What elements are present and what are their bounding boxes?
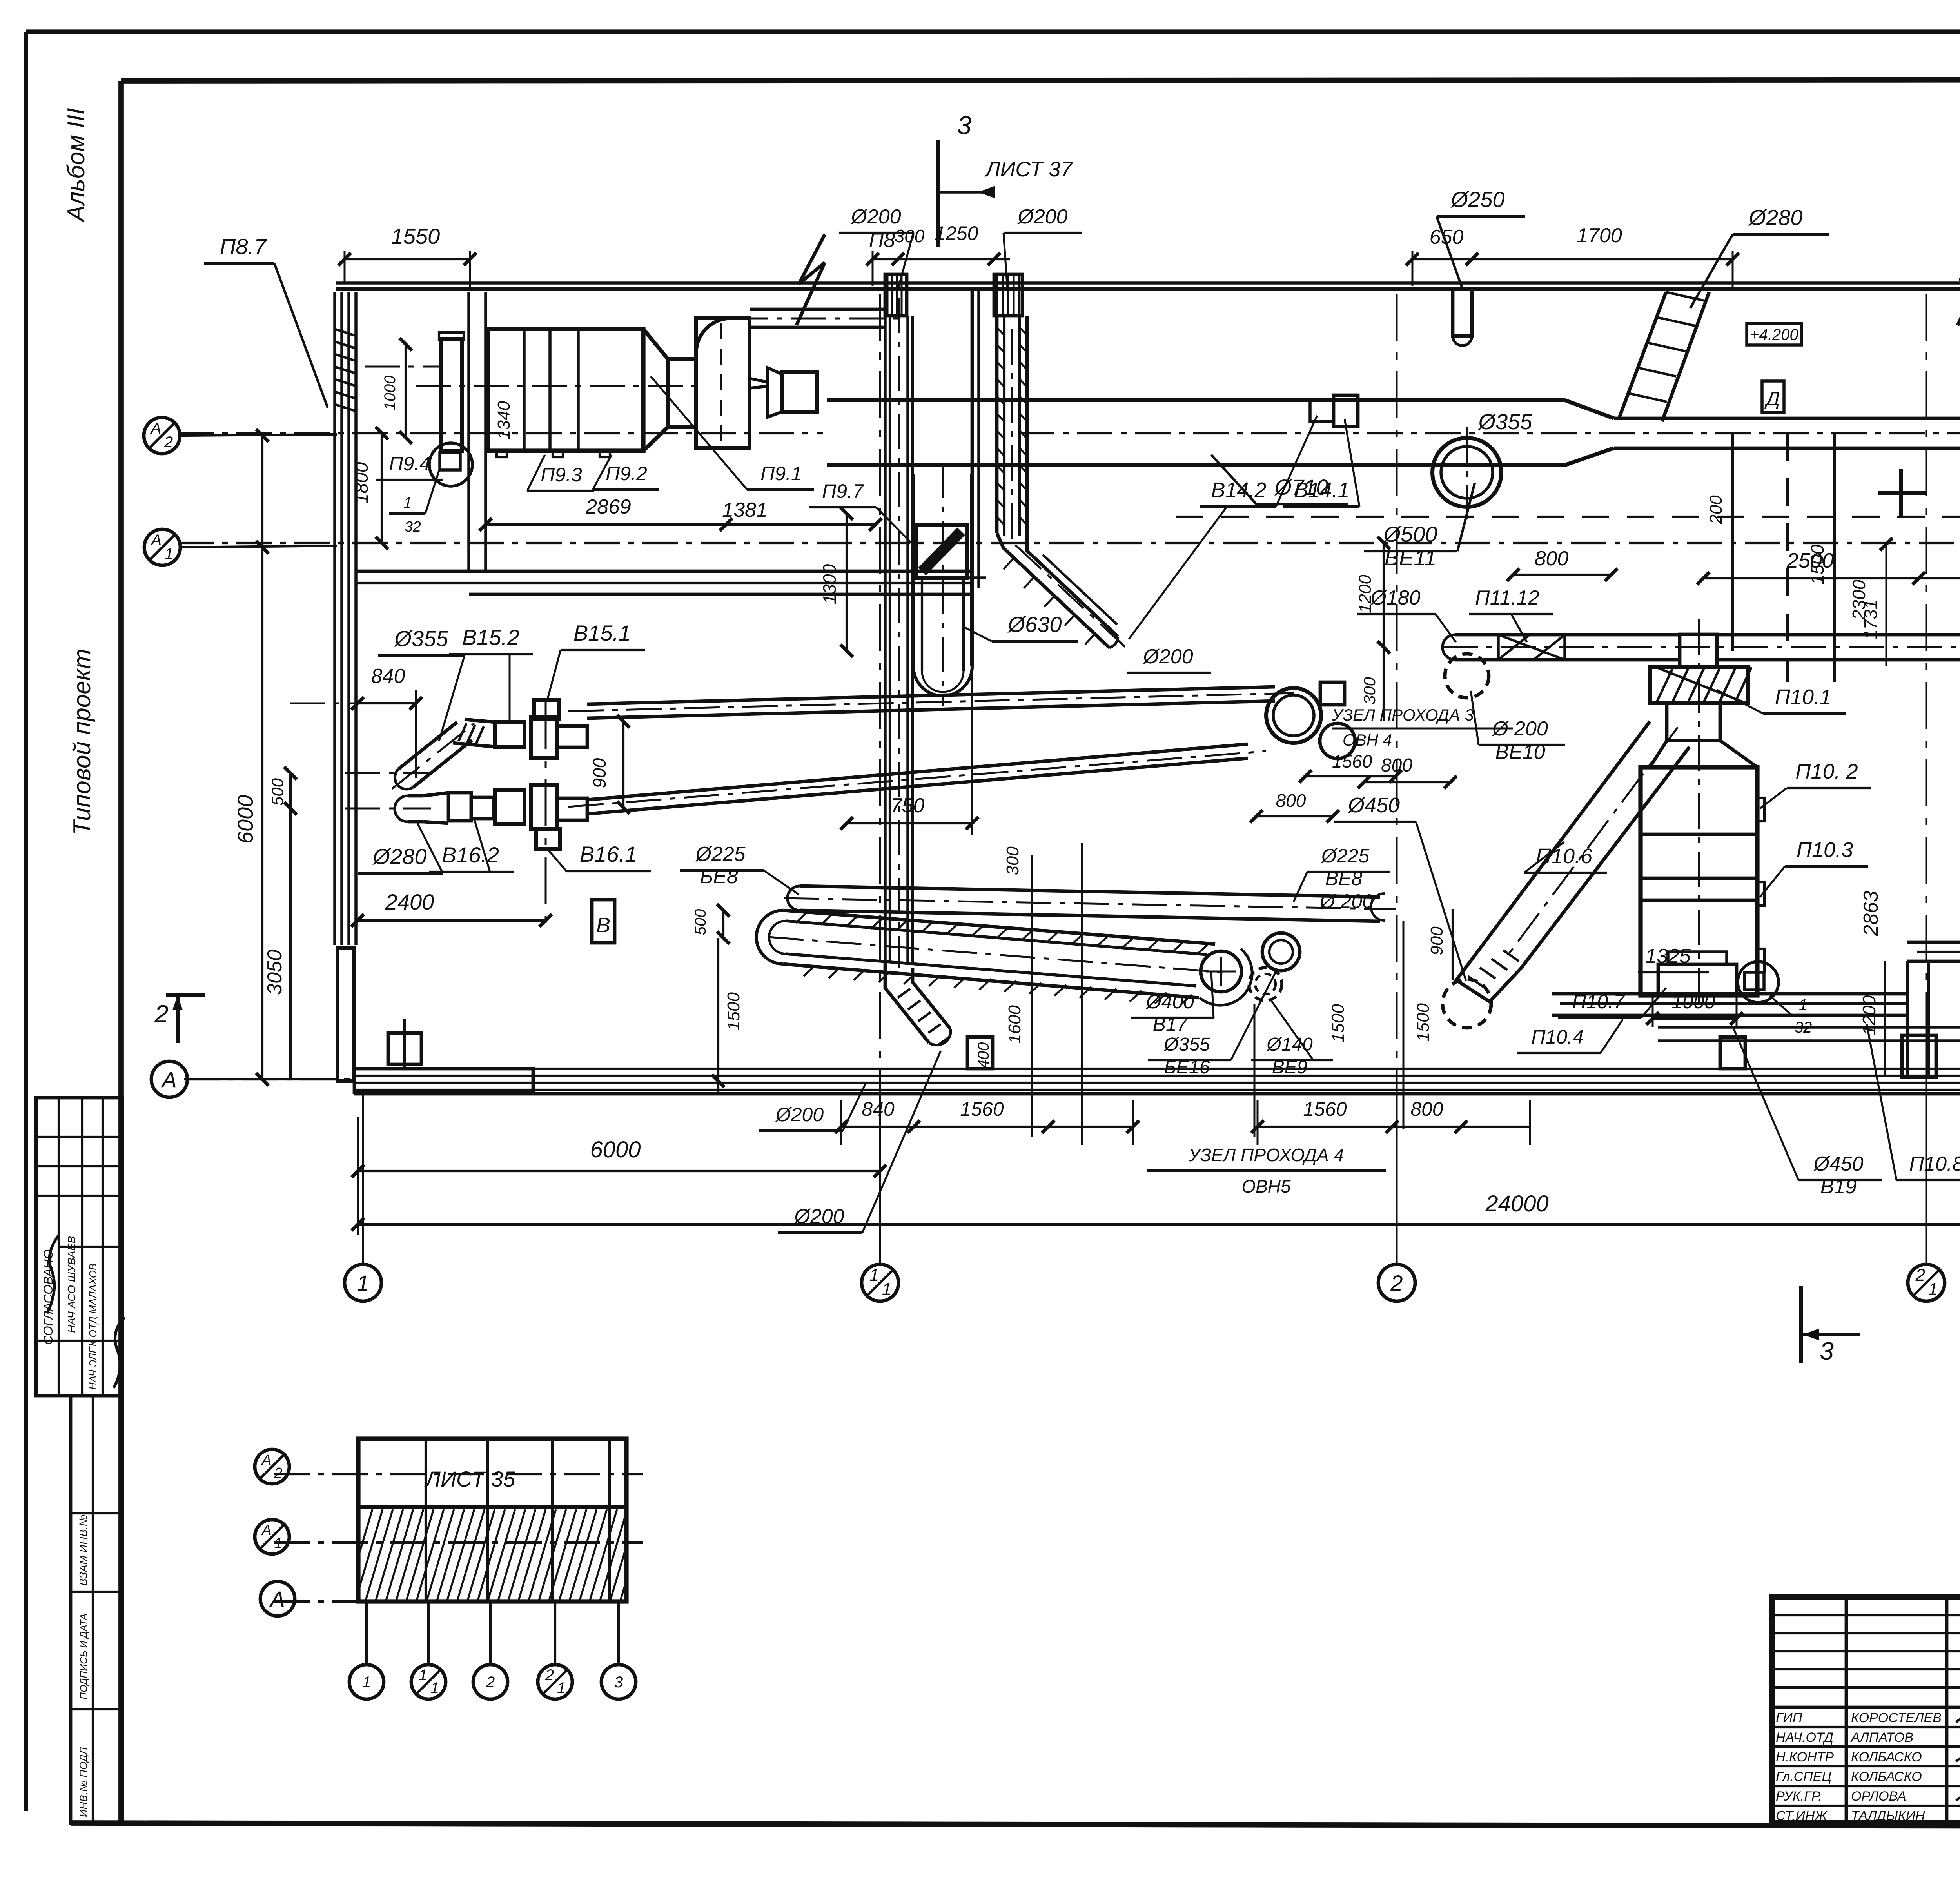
svg-text:Ø200: Ø200 — [1142, 645, 1193, 668]
svg-text:2400: 2400 — [385, 890, 434, 914]
svg-text:1600: 1600 — [1005, 1005, 1024, 1044]
svg-text:ВЕ11: ВЕ11 — [1385, 545, 1437, 570]
svg-text:КОРОСТЕЛЕВ: КОРОСТЕЛЕВ — [1851, 1710, 1942, 1725]
svg-text:1: 1 — [403, 495, 412, 511]
svg-text:650: 650 — [1430, 226, 1464, 249]
svg-text:1381: 1381 — [722, 499, 768, 521]
svg-text:П8.7: П8.7 — [220, 234, 267, 259]
svg-text:Ø450: Ø450 — [1347, 793, 1400, 817]
svg-text:А: А — [261, 1522, 271, 1539]
svg-text:1: 1 — [1928, 1280, 1938, 1299]
svg-text:ОРЛОВА: ОРЛОВА — [1851, 1789, 1906, 1804]
svg-text:1560: 1560 — [960, 1098, 1004, 1120]
svg-text:400: 400 — [975, 1042, 992, 1069]
svg-text:БЕ8: БЕ8 — [700, 865, 738, 888]
svg-text:300: 300 — [1360, 677, 1379, 704]
svg-text:Ø200: Ø200 — [775, 1104, 824, 1126]
svg-text:1731: 1731 — [1860, 599, 1881, 639]
svg-text:24000: 24000 — [1485, 1191, 1548, 1216]
svg-text:Ø355: Ø355 — [1163, 1034, 1210, 1055]
svg-text:840: 840 — [371, 665, 405, 688]
svg-text:Ø355: Ø355 — [1478, 409, 1533, 434]
svg-text:2: 2 — [1915, 1266, 1925, 1285]
svg-text:2: 2 — [274, 1465, 282, 1482]
svg-text:1000: 1000 — [381, 376, 399, 410]
svg-text:Ø180: Ø180 — [1370, 586, 1420, 609]
svg-text:АЛПАТОВ: АЛПАТОВ — [1850, 1730, 1913, 1745]
svg-text:Гл.СПЕЦ: Гл.СПЕЦ — [1776, 1769, 1831, 1784]
svg-text:2869: 2869 — [585, 496, 631, 518]
svg-text:Ø200: Ø200 — [1017, 205, 1067, 228]
svg-text:1: 1 — [274, 1535, 282, 1552]
svg-text:1340: 1340 — [494, 401, 514, 439]
svg-text:3: 3 — [1820, 1337, 1834, 1365]
svg-text:В16.2: В16.2 — [442, 842, 499, 867]
svg-text:П10.1: П10.1 — [1775, 685, 1831, 709]
svg-text:32: 32 — [405, 519, 421, 535]
svg-text:ОВН 4: ОВН 4 — [1343, 731, 1392, 749]
svg-text:П11.12: П11.12 — [1475, 586, 1539, 609]
svg-text:А: А — [150, 420, 162, 437]
svg-text:КОЛБАСКО: КОЛБАСКО — [1851, 1769, 1922, 1784]
svg-text:2: 2 — [545, 1667, 554, 1684]
svg-text:1: 1 — [362, 1674, 371, 1691]
svg-text:А: А — [151, 532, 162, 549]
svg-text:800: 800 — [1381, 755, 1412, 776]
svg-text:2: 2 — [486, 1674, 495, 1691]
svg-text:УЗЕЛ ПРОХОДА 3: УЗЕЛ ПРОХОДА 3 — [1332, 706, 1474, 724]
svg-text:НАЧ АСО ШУВАЕВ: НАЧ АСО ШУВАЕВ — [65, 1236, 78, 1333]
svg-text:В14.1: В14.1 — [1294, 478, 1349, 502]
svg-text:3: 3 — [957, 111, 972, 140]
svg-text:Ø280: Ø280 — [372, 844, 427, 869]
svg-text:Типовой проект: Типовой проект — [69, 649, 96, 835]
svg-text:800: 800 — [1276, 790, 1306, 811]
svg-text:1550: 1550 — [391, 224, 440, 249]
svg-text:Ø140: Ø140 — [1266, 1034, 1313, 1055]
svg-text:500: 500 — [268, 778, 287, 806]
svg-text:УЗЕЛ ПРОХОДА 4: УЗЕЛ ПРОХОДА 4 — [1188, 1145, 1344, 1165]
svg-text:1250: 1250 — [935, 222, 978, 244]
svg-text:200: 200 — [1706, 495, 1726, 525]
svg-text:+4.200: +4.200 — [1750, 326, 1798, 343]
svg-text:ОВН5: ОВН5 — [1241, 1176, 1291, 1197]
svg-text:Ø450: Ø450 — [1813, 1153, 1863, 1175]
svg-text:П9.2: П9.2 — [606, 463, 647, 485]
svg-text:Ø225: Ø225 — [1321, 845, 1370, 867]
svg-text:Альбом III: Альбом III — [63, 108, 90, 223]
svg-text:В14.2: В14.2 — [1211, 478, 1266, 502]
svg-text:300: 300 — [1003, 846, 1022, 875]
svg-text:1500: 1500 — [1328, 1004, 1348, 1042]
svg-text:Ø200: Ø200 — [793, 1205, 844, 1228]
svg-text:Ø250: Ø250 — [1450, 187, 1505, 212]
svg-text:В: В — [596, 913, 610, 937]
svg-text:ТАЛДЫКИН: ТАЛДЫКИН — [1851, 1808, 1925, 1823]
svg-text:ЛИСТ 37: ЛИСТ 37 — [985, 158, 1073, 181]
svg-text:1: 1 — [430, 1679, 439, 1697]
svg-text:1: 1 — [165, 545, 173, 563]
svg-text:Ø 200: Ø 200 — [1319, 890, 1373, 912]
svg-text:ИНВ.№ ПОДЛ: ИНВ.№ ПОДЛ — [78, 1747, 89, 1817]
svg-text:1500: 1500 — [1414, 1003, 1433, 1042]
svg-text:1700: 1700 — [1577, 224, 1622, 247]
svg-text:2500: 2500 — [1786, 549, 1834, 572]
svg-text:НАЧ.ОТД: НАЧ.ОТД — [1776, 1730, 1833, 1745]
svg-text:1: 1 — [869, 1266, 879, 1285]
svg-text:Ø355: Ø355 — [394, 626, 449, 651]
svg-text:1300: 1300 — [819, 564, 840, 604]
svg-text:П9.1: П9.1 — [760, 463, 802, 485]
svg-text:840: 840 — [862, 1098, 895, 1120]
svg-text:1560: 1560 — [1332, 751, 1372, 772]
svg-text:1: 1 — [882, 1280, 891, 1299]
svg-text:1: 1 — [557, 1679, 566, 1697]
svg-text:800: 800 — [1535, 547, 1569, 570]
svg-text:П10.8: П10.8 — [1909, 1153, 1960, 1175]
svg-text:Ø 200: Ø 200 — [1492, 717, 1548, 740]
svg-text:2: 2 — [164, 434, 173, 451]
svg-text:Н.КОНТР: Н.КОНТР — [1776, 1750, 1834, 1765]
svg-text:НАЧ ЭЛЕК ОТД МАЛАХОВ: НАЧ ЭЛЕК ОТД МАЛАХОВ — [87, 1264, 99, 1390]
svg-text:Д: Д — [1764, 388, 1780, 410]
svg-text:900: 900 — [589, 758, 610, 788]
svg-text:В19: В19 — [1820, 1175, 1857, 1198]
svg-text:3: 3 — [614, 1674, 623, 1691]
svg-text:КОЛБАСКО: КОЛБАСКО — [1851, 1750, 1922, 1765]
svg-text:300: 300 — [895, 226, 925, 246]
svg-text:2: 2 — [1390, 1271, 1403, 1295]
svg-text:Ø400: Ø400 — [1145, 991, 1194, 1013]
svg-text:РУК.ГР.: РУК.ГР. — [1776, 1789, 1822, 1804]
svg-text:500: 500 — [692, 909, 709, 935]
svg-text:П10.3: П10.3 — [1797, 838, 1853, 862]
svg-text:800: 800 — [1410, 1098, 1443, 1120]
svg-text:В15.2: В15.2 — [462, 625, 519, 650]
svg-text:Ø280: Ø280 — [1748, 205, 1803, 230]
svg-text:В15.1: В15.1 — [573, 621, 631, 645]
svg-text:П9.4: П9.4 — [389, 453, 430, 475]
svg-text:ЛИСТ 35: ЛИСТ 35 — [424, 1467, 515, 1491]
svg-text:П10. 2: П10. 2 — [1795, 760, 1858, 783]
svg-text:П10.4: П10.4 — [1531, 1026, 1584, 1048]
svg-text:900: 900 — [1427, 926, 1446, 955]
svg-text:А: А — [261, 1452, 271, 1469]
svg-text:П9.7: П9.7 — [822, 480, 864, 502]
svg-text:ВЗАМ ИНВ.№: ВЗАМ ИНВ.№ — [77, 1514, 89, 1586]
svg-text:А: А — [161, 1067, 176, 1092]
svg-text:3050: 3050 — [263, 950, 286, 995]
svg-text:В16.1: В16.1 — [580, 842, 637, 866]
svg-text:1560: 1560 — [1303, 1098, 1347, 1120]
svg-text:2: 2 — [154, 1000, 169, 1028]
svg-text:Ø225: Ø225 — [695, 843, 746, 866]
svg-text:1500: 1500 — [724, 992, 743, 1031]
svg-text:Ø500: Ø500 — [1383, 522, 1437, 547]
svg-text:П9.3: П9.3 — [541, 464, 582, 486]
svg-text:750: 750 — [891, 794, 925, 817]
svg-text:1: 1 — [357, 1271, 369, 1295]
svg-text:СТ.ИНЖ: СТ.ИНЖ — [1776, 1808, 1828, 1823]
svg-text:Ø630: Ø630 — [1007, 612, 1062, 637]
svg-text:1800: 1800 — [351, 462, 372, 504]
svg-text:1200: 1200 — [1356, 575, 1375, 613]
svg-text:ПОДПИСЬ И ДАТА: ПОДПИСЬ И ДАТА — [78, 1614, 89, 1699]
svg-text:6000: 6000 — [590, 1137, 641, 1162]
svg-text:6000: 6000 — [233, 795, 258, 844]
svg-text:А: А — [269, 1587, 285, 1611]
svg-text:ГИП: ГИП — [1776, 1710, 1802, 1725]
svg-text:1: 1 — [419, 1667, 427, 1684]
svg-text:2863: 2863 — [1860, 891, 1882, 937]
svg-text:Ø200: Ø200 — [850, 205, 901, 228]
